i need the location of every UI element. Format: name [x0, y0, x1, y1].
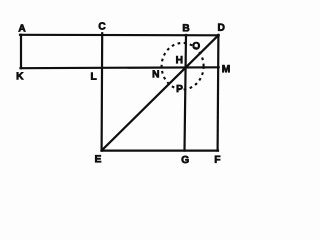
node A [19, 24, 26, 31]
node L [91, 73, 96, 80]
node C [99, 22, 106, 29]
wire: right vertical D-M-F [217, 35, 220, 151]
wire: vertical B-H-P-G [185, 35, 187, 151]
node M [222, 65, 229, 72]
node B [183, 24, 189, 31]
node F [215, 156, 220, 163]
wire: vertical C-L-E [100, 33, 103, 150]
node D [218, 24, 224, 31]
node K [17, 72, 24, 79]
wire: diagonal E-H-O-D [102, 35, 219, 150]
dotted circle centered at H [162, 43, 204, 90]
wire: top line A-C-B-D [20, 34, 219, 37]
node P [177, 85, 183, 92]
node G [182, 156, 189, 163]
wire: left vertical A-K [20, 35, 22, 68]
node H [176, 56, 182, 63]
wire: middle line K-L-N-H-M [21, 66, 219, 69]
node E [95, 155, 101, 162]
node O [193, 42, 200, 49]
wire: bottom line E-G-F [102, 150, 219, 152]
node N [153, 70, 159, 77]
